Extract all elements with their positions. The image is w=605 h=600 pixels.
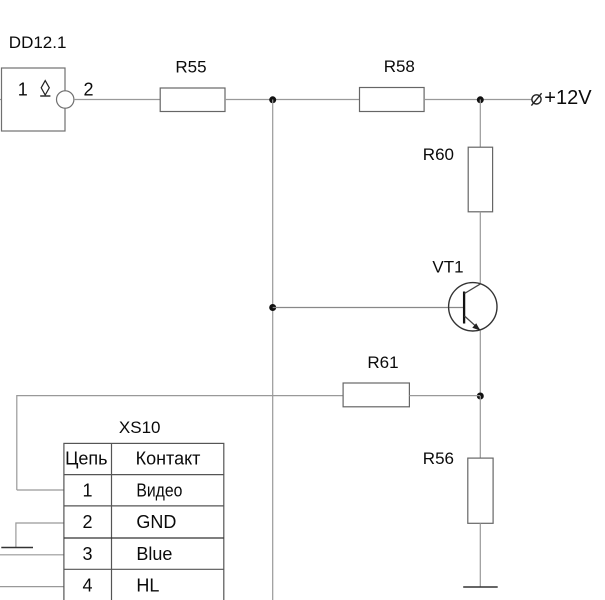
svg-text:VT1: VT1: [432, 257, 463, 276]
resistor R56: [468, 458, 493, 523]
svg-text:+12V: +12V: [544, 87, 592, 109]
svg-text:DD12.1: DD12.1: [9, 33, 67, 52]
wire left corner to R61: [17, 396, 343, 490]
svg-text:GND: GND: [136, 512, 176, 532]
table divider row2/3: [64, 537, 224, 539]
terminal circle +12V: [531, 93, 541, 105]
svg-text:R56: R56: [423, 449, 454, 468]
node junction at +12V rail: [477, 96, 484, 103]
resistor R61: [343, 383, 409, 407]
inversion bubble on DD12.1 output: [56, 91, 73, 108]
table row 4: [82, 576, 159, 596]
wire R56 to ground: [479, 523, 481, 587]
wire DD12.1 pin2 to R55: [74, 99, 160, 101]
table row 1: [82, 480, 182, 500]
logic element DD12.1: [2, 68, 66, 131]
wire node to R56: [479, 396, 481, 458]
svg-text:HL: HL: [136, 576, 159, 596]
wire base of VT1: [273, 307, 463, 309]
svg-text:Контакт: Контакт: [136, 449, 201, 469]
svg-text:Видео: Видео: [136, 480, 182, 500]
resistor R60: [468, 147, 492, 212]
svg-text:1: 1: [82, 480, 92, 500]
wire R60 to VT1 collector: [479, 212, 481, 284]
wire VT1 emitter to R61 node: [479, 331, 481, 397]
wire R61 to node: [409, 395, 480, 397]
svg-text:R61: R61: [367, 353, 398, 372]
svg-text:2: 2: [82, 512, 92, 532]
wire pin4 of XS10 to left edge: [0, 586, 64, 588]
table row 3: [82, 544, 172, 564]
resistor R55: [160, 88, 225, 112]
svg-text:4: 4: [82, 576, 92, 596]
wire +12V node down to R60: [479, 100, 481, 148]
svg-text:3: 3: [82, 544, 92, 564]
node junction at base wire: [269, 304, 276, 311]
node junction at R55/R58: [269, 96, 276, 103]
wire pin1 input stub: [0, 99, 2, 101]
ground bar bottom right: [463, 586, 498, 588]
connector table XS10: [64, 443, 224, 600]
svg-text:1: 1: [18, 79, 28, 99]
node junction emitter/R61/R56: [477, 393, 484, 400]
svg-text:2: 2: [84, 80, 94, 100]
ground bar at pin2: [1, 547, 33, 549]
wire pin1 of XS10 to table: [17, 489, 64, 491]
table row 2: [82, 512, 176, 532]
svg-text:R58: R58: [384, 57, 415, 76]
wire R58 to +12V terminal: [424, 99, 532, 101]
wire R55 to R58: [225, 99, 360, 101]
svg-text:Blue: Blue: [136, 544, 172, 564]
svg-text:R55: R55: [175, 57, 206, 76]
svg-text:R60: R60: [423, 145, 454, 164]
wire vertical bus from node down to bottom edge: [272, 100, 274, 600]
svg-text:XS10: XS10: [119, 418, 161, 437]
wire pin2 of XS10 to local ground: [16, 523, 64, 548]
wire pin3 of XS10 to left edge: [0, 554, 64, 556]
transistor VT1: [449, 283, 497, 331]
svg-text:Цепь: Цепь: [65, 449, 107, 469]
resistor R58: [360, 88, 425, 112]
